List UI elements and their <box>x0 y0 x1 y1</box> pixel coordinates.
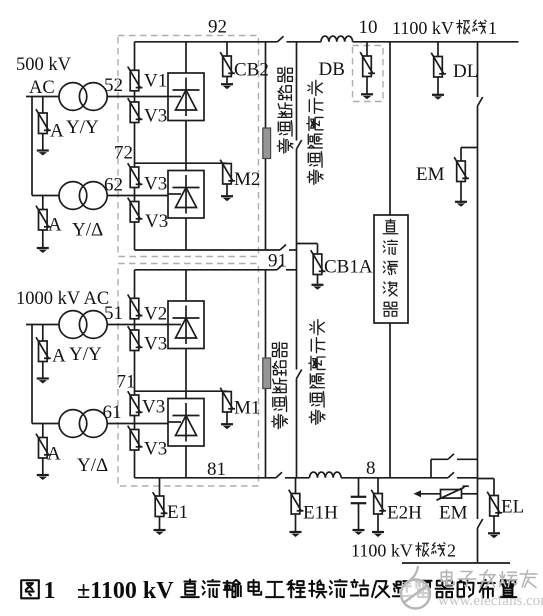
svg-text:2: 2 <box>447 541 456 561</box>
svg-text:1100 kV: 1100 kV <box>392 18 454 38</box>
svg-text:V3: V3 <box>144 106 167 127</box>
svg-text:E1H: E1H <box>303 503 338 524</box>
svg-text:71: 71 <box>117 372 136 393</box>
svg-text:AC: AC <box>29 78 55 98</box>
svg-text:Y/Y: Y/Y <box>66 117 99 138</box>
svg-text:DL: DL <box>453 61 478 82</box>
svg-text:10: 10 <box>359 17 378 38</box>
svg-text:EL: EL <box>501 497 524 518</box>
svg-text:Y/Δ: Y/Δ <box>77 455 108 476</box>
svg-text:V3: V3 <box>145 211 168 232</box>
svg-text:Y/Y: Y/Y <box>69 344 102 365</box>
svg-text:62: 62 <box>104 175 123 196</box>
svg-text:M2: M2 <box>234 169 260 190</box>
svg-text:CB2: CB2 <box>234 60 269 81</box>
svg-text:E2H: E2H <box>387 503 422 524</box>
svg-text:DB: DB <box>319 59 345 80</box>
svg-text:V1: V1 <box>144 71 167 92</box>
svg-text:V2: V2 <box>144 304 167 325</box>
svg-text:M1: M1 <box>234 398 260 419</box>
svg-text:81: 81 <box>207 459 226 480</box>
svg-text:V3: V3 <box>144 334 167 355</box>
svg-text:EM: EM <box>439 503 468 524</box>
svg-text:A: A <box>48 215 62 236</box>
svg-text:92: 92 <box>208 17 227 38</box>
svg-text:Y/Δ: Y/Δ <box>72 220 103 241</box>
svg-text:1000 kV AC: 1000 kV AC <box>16 289 109 309</box>
svg-text:1: 1 <box>488 18 497 38</box>
svg-text:V3: V3 <box>144 439 167 460</box>
svg-text:1: 1 <box>44 578 56 604</box>
svg-text:www.elecfans.com: www.elecfans.com <box>438 593 543 609</box>
svg-text:V3: V3 <box>142 397 165 418</box>
svg-text:V3: V3 <box>144 174 167 195</box>
svg-text:A: A <box>52 346 66 367</box>
svg-text:±1100 kV: ±1100 kV <box>77 578 174 604</box>
svg-text:8: 8 <box>366 458 376 479</box>
svg-text:52: 52 <box>104 75 123 96</box>
svg-text:CB1A: CB1A <box>324 257 373 278</box>
svg-text:A: A <box>50 121 64 142</box>
svg-text:EM: EM <box>416 164 445 185</box>
svg-text:61: 61 <box>103 402 122 423</box>
svg-text:91: 91 <box>268 251 287 272</box>
svg-text:A: A <box>47 444 61 465</box>
svg-text:51: 51 <box>104 303 123 324</box>
svg-text:1100 kV: 1100 kV <box>351 541 413 561</box>
svg-text:500 kV: 500 kV <box>16 55 72 75</box>
svg-text:72: 72 <box>114 143 133 164</box>
svg-text:E1: E1 <box>167 502 188 523</box>
